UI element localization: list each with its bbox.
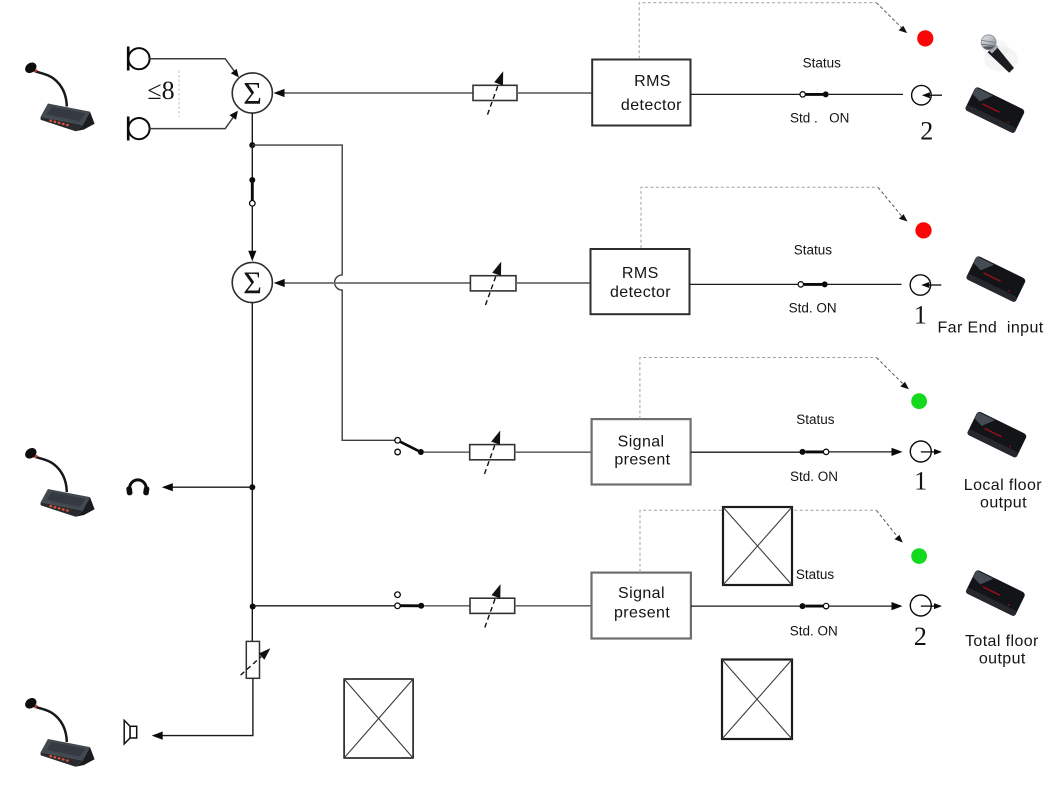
svg-text:≤8: ≤8 xyxy=(147,76,174,105)
svg-text:Σ: Σ xyxy=(243,265,262,301)
crossed square (below row 4) xyxy=(722,660,792,740)
svg-text:Far End input: Far End input xyxy=(938,320,1044,337)
device icon D4 xyxy=(965,569,1026,616)
svg-text:output: output xyxy=(980,494,1027,511)
wire R1 down and left to loudspeaker (arrow left) xyxy=(152,678,253,739)
status switch SW1 xyxy=(800,91,829,97)
dashed status link row 3 xyxy=(640,358,909,419)
input port circle P1 with arrow xyxy=(910,275,941,295)
attenuator A4 xyxy=(470,584,515,627)
attenuator A2 xyxy=(470,262,516,305)
wire B3 to status switch SW4 xyxy=(691,451,801,453)
Signal present box B4 xyxy=(592,573,691,639)
junction node (headphone tap) xyxy=(249,484,255,490)
svg-text:Total floor: Total floor xyxy=(965,633,1039,650)
wire SW6 to output port (arrow right) xyxy=(829,602,903,610)
output port circle with arrow (row 3) xyxy=(910,441,942,462)
svg-text:Local floor: Local floor xyxy=(964,477,1042,494)
wire A3 to Signal present box B3 xyxy=(515,451,592,453)
status switch SW4 xyxy=(800,449,829,455)
junction node (row 4 tap) xyxy=(250,604,256,610)
handheld microphone icon xyxy=(979,34,1018,72)
wire SW5 to attenuator A4 xyxy=(424,605,470,607)
svg-text:output: output xyxy=(979,650,1026,667)
wire junction to row4 switch SW5 xyxy=(253,605,395,607)
row 3 selector switch SW3 xyxy=(395,438,424,456)
wire SW1 to input port P2 xyxy=(829,93,903,95)
svg-text:Status: Status xyxy=(794,243,833,258)
junction node (row1 branch) xyxy=(249,142,255,148)
wire to headphones (arrow left) xyxy=(162,483,253,491)
svg-text:Std . ON: Std . ON xyxy=(790,110,849,125)
wire bus switch to S2 (arrow down) xyxy=(248,206,256,261)
svg-text:detector: detector xyxy=(621,97,682,114)
wire A4 to Signal present box B4 xyxy=(515,605,592,607)
svg-text:detector: detector xyxy=(610,284,671,301)
RMS detector box B2 xyxy=(591,249,690,314)
device icon D3 xyxy=(967,411,1028,458)
svg-text:Signal: Signal xyxy=(618,434,665,451)
svg-text:Σ: Σ xyxy=(243,75,262,111)
wire B1 to status switch SW1 xyxy=(691,93,801,95)
status switch SW6 xyxy=(800,603,829,609)
input port circle P2 with arrow xyxy=(912,85,942,105)
svg-text:2: 2 xyxy=(920,117,933,146)
svg-text:Std. ON: Std. ON xyxy=(790,623,838,638)
mic connector J2 xyxy=(128,117,149,141)
svg-text:Std. ON: Std. ON xyxy=(789,301,837,316)
mic connector J1 xyxy=(128,47,149,71)
wire J1 to summing point S1 xyxy=(150,59,239,78)
desk microphone icon (top left) xyxy=(23,60,95,131)
wire SW2 to input port P1 xyxy=(828,283,902,285)
red status LED (row 2) xyxy=(915,222,931,238)
svg-text:Signal: Signal xyxy=(618,585,665,602)
attenuator A1 xyxy=(473,71,517,114)
wire SW3 to attenuator A3 xyxy=(424,451,470,453)
RMS detector box B1 xyxy=(592,60,690,126)
device icon D2 xyxy=(966,255,1027,302)
summing junction S2 xyxy=(232,262,272,302)
branch wire to local floor chain (with hop) xyxy=(252,145,394,440)
dashed status link row 2 xyxy=(641,187,908,248)
bus wire S2 down to bottom xyxy=(251,303,253,642)
wire SW4 to output port (arrow right) xyxy=(829,448,903,456)
bus switch (between S1 and S2) xyxy=(249,146,255,206)
Signal present box B3 xyxy=(592,419,691,484)
loudspeaker icon xyxy=(124,720,137,744)
crossed square (above row 4) xyxy=(723,507,792,585)
summing junction S1 xyxy=(232,73,272,113)
wire A1 to RMS detector B1 xyxy=(517,92,592,94)
svg-text:present: present xyxy=(614,605,670,622)
svg-text:1: 1 xyxy=(914,301,927,330)
row 4 selector switch SW5 xyxy=(395,592,425,609)
status switch SW2 xyxy=(798,281,828,287)
svg-text:2: 2 xyxy=(914,622,927,651)
dashed status link row 1 xyxy=(639,3,907,59)
wire B2 to status switch SW2 xyxy=(690,283,799,285)
wire J2 to summing point S1 xyxy=(150,111,238,129)
variable resistor R1 (vertical) xyxy=(241,641,271,678)
green status LED (row 3) xyxy=(911,393,927,409)
desk microphone icon (bottom left) xyxy=(23,696,95,767)
svg-text:Status: Status xyxy=(796,412,835,427)
svg-text:RMS: RMS xyxy=(622,265,659,282)
faint divider line xyxy=(178,71,180,118)
svg-text:1: 1 xyxy=(914,467,927,496)
green status LED (row 4) xyxy=(911,548,927,564)
device icon D1 xyxy=(965,86,1026,133)
wire attenuator A1 to S1 (arrow into S1) xyxy=(274,89,474,97)
bus wire S1 down to junction xyxy=(251,113,253,146)
dashed status link row 4 xyxy=(640,510,903,572)
wire A2 to RMS box B2 xyxy=(516,282,591,284)
headphones icon xyxy=(126,480,150,496)
red status LED (row 1) xyxy=(917,30,933,46)
wire attenuator A2 to S2 (arrow into S2) xyxy=(274,279,471,287)
desk microphone icon (middle left) xyxy=(23,446,95,517)
wire B4 to status switch SW6 xyxy=(691,605,800,607)
svg-text:Status: Status xyxy=(803,56,842,71)
crossed square (bottom middle) xyxy=(344,679,413,758)
svg-text:Status: Status xyxy=(796,567,835,582)
svg-text:present: present xyxy=(614,451,670,468)
attenuator A3 xyxy=(470,431,515,474)
svg-text:Std. ON: Std. ON xyxy=(790,469,838,484)
svg-text:RMS: RMS xyxy=(634,73,671,90)
output port circle with arrow (row 4) xyxy=(910,595,942,616)
